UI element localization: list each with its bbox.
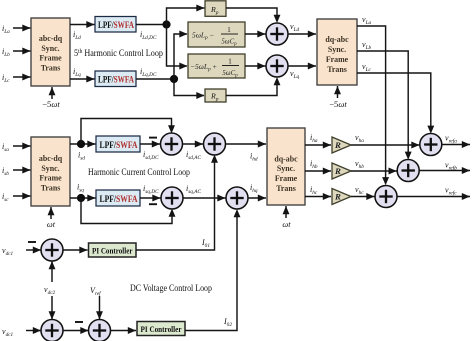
wire v_Lc to refa junction bbox=[357, 73, 434, 134]
svg-text:vLq: vLq bbox=[290, 69, 300, 80]
svg-text:5th Harmonic Control Loop: 5th Harmonic Control Loop bbox=[74, 48, 163, 58]
minus sign at junction1 input bbox=[149, 137, 157, 139]
svg-text:isq: isq bbox=[77, 183, 84, 194]
svg-text:I01: I01 bbox=[201, 238, 210, 249]
svg-text:dq-abc: dq-abc bbox=[325, 35, 349, 44]
svg-text:−5ωt: −5ωt bbox=[42, 99, 60, 109]
svg-text:Trans: Trans bbox=[327, 65, 347, 74]
svg-text:iLc: iLc bbox=[2, 73, 10, 84]
svg-text:Trans: Trans bbox=[41, 64, 61, 73]
label v_refa bbox=[445, 134, 457, 145]
svg-text:LPF/SWFA: LPF/SWFA bbox=[98, 76, 134, 86]
svg-text:isd,AC: isd,AC bbox=[186, 150, 202, 161]
label wt bbox=[47, 220, 56, 229]
svg-text:isd: isd bbox=[78, 151, 85, 162]
wire i_hc to gain R c bbox=[305, 193, 331, 200]
svg-text:iLb: iLb bbox=[2, 47, 10, 58]
svg-text:LPF/SWFA: LPF/SWFA bbox=[100, 195, 138, 205]
wire J2 to dq-abc mid bbox=[225, 141, 266, 148]
svg-text:Sync.: Sync. bbox=[277, 164, 295, 173]
wire i_sd to LPF3 bbox=[70, 141, 96, 148]
label 5th Harmonic Control Loop bbox=[74, 48, 163, 58]
wire J8 to J9 bbox=[63, 327, 89, 334]
summing junction i_sq,AC (J3) bbox=[161, 187, 183, 209]
svg-text:1: 1 bbox=[227, 25, 231, 34]
label v_Lq bbox=[290, 69, 300, 80]
wire i_sa input arrow bbox=[13, 143, 31, 150]
svg-text:iLd,DC: iLd,DC bbox=[140, 30, 157, 41]
wire i_Lc input arrow bbox=[13, 74, 31, 81]
svg-text:isq,DC: isq,DC bbox=[143, 184, 159, 195]
svg-text:ωt: ωt bbox=[47, 220, 56, 229]
wire I01 from PI1 up into J2 bbox=[136, 155, 218, 251]
svg-text:iLq: iLq bbox=[73, 67, 81, 78]
minus sign at J9 input bbox=[75, 321, 83, 323]
svg-text:abc-dq: abc-dq bbox=[39, 154, 63, 163]
svg-text:iLa: iLa bbox=[2, 24, 10, 35]
node dot i_sd bbox=[77, 140, 85, 148]
svg-text:vLb: vLb bbox=[362, 40, 372, 51]
svg-text:Frame: Frame bbox=[326, 55, 349, 64]
svg-text:isc: isc bbox=[2, 192, 9, 203]
wire i_La input arrow bbox=[13, 25, 31, 32]
wire v_dc1 to junction J8 bbox=[26, 327, 41, 334]
wire v_La to refc junction bbox=[357, 26, 389, 185]
wire junction vLq to dq-abc bbox=[288, 63, 317, 70]
wire junction vLd to dq-abc bbox=[288, 31, 317, 38]
block PI Controller 2 bbox=[137, 322, 185, 336]
label i_hq bbox=[250, 183, 258, 194]
block dq-abc Sync Frame Trans (5th harmonic) bbox=[317, 19, 357, 85]
input label i_sb bbox=[2, 166, 9, 177]
svg-text:iha: iha bbox=[310, 133, 318, 144]
wire i_hb to gain R b bbox=[305, 168, 331, 175]
node dot i_Ld,DC bbox=[162, 20, 170, 28]
gain triangle R b bbox=[332, 163, 351, 179]
svg-text:Sync.: Sync. bbox=[41, 164, 59, 173]
wire i_Lb input arrow bbox=[13, 48, 31, 55]
label -5wt (dq-abc) bbox=[329, 99, 347, 109]
svg-text:vrefb: vrefb bbox=[445, 161, 457, 172]
label Harmonic Current Control Loop bbox=[88, 167, 190, 177]
label v_Lc bbox=[362, 62, 372, 73]
block LPF/SWFA 4 bbox=[96, 190, 140, 206]
summing junction v_refb bbox=[397, 160, 419, 182]
wire J4 to dq-abc mid bbox=[248, 195, 266, 202]
node dot i_Lq,DC bbox=[170, 75, 178, 83]
wire LPF3 to junction1 bbox=[140, 141, 160, 148]
wire i_sq to LPF4 bbox=[70, 195, 96, 202]
svg-text:vdc2: vdc2 bbox=[44, 285, 56, 296]
svg-text:ωt: ωt bbox=[282, 220, 291, 229]
input label v_dc1 (top) bbox=[2, 246, 14, 257]
svg-text:vdc1: vdc1 bbox=[2, 327, 14, 338]
summing junction J8 bbox=[41, 320, 63, 341]
label I_02 bbox=[223, 317, 232, 328]
label i_sq,AC bbox=[186, 184, 202, 195]
svg-text:ihq: ihq bbox=[250, 183, 258, 194]
svg-text:isq,AC: isq,AC bbox=[186, 184, 202, 195]
svg-text:vLa: vLa bbox=[362, 15, 372, 26]
input arrow wt into abc-dq bbox=[48, 207, 55, 219]
input label i_Lb bbox=[2, 47, 10, 58]
gain triangle R a bbox=[332, 137, 351, 153]
input label v_dc1 (bottom) bbox=[2, 327, 14, 338]
summing junction J2 (adds I01) bbox=[204, 133, 226, 155]
wire v_refc output bbox=[397, 193, 471, 200]
svg-text:Trans: Trans bbox=[276, 184, 296, 193]
wire J9 to PI controller 2 bbox=[110, 327, 136, 334]
summing junction i_sd,AC (J1) bbox=[161, 133, 183, 155]
svg-text:I02: I02 bbox=[223, 317, 232, 328]
svg-text:iLq,DC: iLq,DC bbox=[140, 67, 157, 78]
svg-text:vhc: vhc bbox=[355, 185, 364, 196]
wire J5 to PI controller 1 bbox=[63, 247, 88, 254]
label i_Ld,DC bbox=[140, 30, 157, 41]
label i_Lq bbox=[73, 67, 81, 78]
input label i_sa bbox=[2, 142, 9, 153]
wire i_sb input arrow bbox=[13, 167, 31, 174]
wire I02 from PI2 up into J4 bbox=[185, 209, 240, 331]
svg-text:isa: isa bbox=[2, 142, 9, 153]
input arrow -5wt into abc-dq block bbox=[49, 87, 56, 99]
wire gain1 to junction vLd bbox=[245, 31, 266, 38]
label i_Ld bbox=[73, 30, 81, 41]
wire feedforward i_sq under LPF4 into junction3 bottom bbox=[81, 198, 175, 224]
wire i_sc input arrow bbox=[13, 193, 31, 200]
wire V_ref down into J9 bbox=[96, 296, 103, 320]
block Rp bottom bbox=[205, 89, 226, 102]
svg-text:Vref: Vref bbox=[90, 286, 102, 297]
svg-text:vdc1: vdc1 bbox=[2, 246, 14, 257]
svg-text:vhb: vhb bbox=[355, 159, 364, 170]
summing junction J9 bbox=[89, 320, 111, 341]
gain triangle R c bbox=[332, 189, 351, 205]
svg-text:1: 1 bbox=[228, 57, 232, 66]
label v_hb bbox=[355, 159, 364, 170]
wire v_refa output bbox=[441, 141, 470, 148]
label I_01 bbox=[201, 238, 210, 249]
summing junction J4 (adds I02) bbox=[226, 187, 248, 209]
wire gain2 to junction vLq bbox=[245, 63, 266, 70]
svg-text:DC Voltage Control Loop: DC Voltage Control Loop bbox=[130, 283, 212, 293]
label v_Ld bbox=[290, 22, 300, 33]
summing junction v_refc bbox=[375, 186, 397, 208]
label v_hc bbox=[355, 185, 364, 196]
minus sign at junction3 input bbox=[149, 203, 157, 205]
svg-text:R: R bbox=[334, 192, 341, 202]
label v_dc2 bbox=[44, 285, 56, 296]
svg-text:Sync.: Sync. bbox=[41, 44, 59, 53]
svg-text:abc-dq: abc-dq bbox=[39, 34, 63, 43]
wire v_refb output bbox=[419, 167, 470, 174]
svg-text:LPF/SWFA: LPF/SWFA bbox=[98, 21, 134, 31]
svg-text:PI Controller: PI Controller bbox=[141, 325, 182, 334]
wire v_dc2 down into J8 bbox=[49, 296, 56, 320]
wire LPF4 to junction3 bbox=[140, 195, 161, 202]
label i_sd,AC bbox=[186, 150, 202, 161]
summing junction J5 bbox=[41, 239, 63, 261]
wire v_dc1 to junction J5 bbox=[26, 247, 41, 254]
block LPF/SWFA 2 bbox=[95, 71, 136, 87]
svg-text:vrefa: vrefa bbox=[445, 134, 457, 145]
wire v_ha to refa junction bbox=[351, 142, 420, 149]
summing junction vLd bbox=[266, 23, 288, 45]
wire node i_Lq,DC down to Rp2 bbox=[174, 79, 205, 99]
block LPF/SWFA 3 bbox=[96, 136, 140, 152]
wire node i_Ld,DC down to gain2 bbox=[167, 25, 188, 70]
block PI Controller 1 bbox=[89, 243, 137, 257]
label DC Voltage Control Loop bbox=[130, 283, 212, 293]
wire v_hb to refb junction bbox=[351, 168, 397, 175]
svg-text:Frame: Frame bbox=[39, 174, 62, 183]
wire v_dc2 up into J5 bbox=[49, 261, 56, 282]
label i_hc bbox=[310, 185, 318, 196]
wire i_Lq,DC from LPF2 to node bbox=[136, 78, 174, 80]
svg-text:R: R bbox=[334, 140, 341, 150]
label v_ha bbox=[355, 133, 364, 144]
input arrow wt into dq-abc mid bbox=[283, 206, 290, 218]
svg-text:vrefc: vrefc bbox=[445, 186, 457, 197]
wire v_hc to refc junction bbox=[351, 193, 375, 200]
svg-text:dq-abc: dq-abc bbox=[274, 154, 298, 163]
svg-text:ihd: ihd bbox=[250, 152, 258, 163]
svg-text:vLd: vLd bbox=[290, 22, 300, 33]
input label i_La bbox=[2, 24, 10, 35]
block gain 5wLp - 1/5wCp bbox=[188, 22, 245, 47]
svg-text:Trans: Trans bbox=[41, 184, 61, 193]
wire node i_Lq,DC up to gain1 bbox=[174, 31, 188, 79]
input label i_Lc bbox=[2, 73, 10, 84]
svg-text:isd,DC: isd,DC bbox=[143, 150, 159, 161]
label v_La bbox=[362, 15, 372, 26]
wire Rp2 output to junction vLq (up) bbox=[226, 77, 280, 96]
svg-text:LPF/SWFA: LPF/SWFA bbox=[100, 141, 138, 151]
label i_sd,DC bbox=[143, 150, 159, 161]
input arrow -5wt into dq-abc block bbox=[334, 86, 341, 98]
block abc-dq Sync Frame Trans (5th harmonic) bbox=[31, 18, 70, 86]
wire feedforward i_sd over LPF3 into junction1 top bbox=[81, 119, 175, 145]
wire J1 to J2 bbox=[182, 141, 203, 148]
svg-text:Frame: Frame bbox=[39, 54, 62, 63]
svg-text:Sync.: Sync. bbox=[328, 45, 346, 54]
label -5wt bbox=[42, 99, 60, 109]
label i_ha bbox=[310, 133, 318, 144]
svg-text:vLc: vLc bbox=[362, 62, 372, 73]
svg-text:isb: isb bbox=[2, 166, 9, 177]
block gain -5wLp + 1/5wCp bbox=[188, 54, 245, 78]
wire v_Lb to refb junction bbox=[357, 51, 412, 160]
wire J3 to J4 bbox=[183, 195, 226, 202]
minus sign on v_dc1 input bbox=[28, 241, 36, 243]
svg-text:ihb: ihb bbox=[310, 159, 318, 170]
block abc-dq Sync Frame Trans (fundamental) bbox=[31, 137, 70, 206]
wire node to Rp1 bbox=[167, 5, 205, 25]
svg-text:ihc: ihc bbox=[310, 185, 318, 196]
wire Rp1 output to junction vLd (down) bbox=[226, 8, 280, 23]
label i_sd bbox=[78, 151, 85, 162]
block Rp top bbox=[205, 1, 226, 16]
label i_Lq,DC bbox=[140, 67, 157, 78]
block LPF/SWFA 1 bbox=[95, 17, 136, 33]
wire i_ha to gain R a bbox=[305, 142, 331, 149]
summing junction v_refa bbox=[420, 134, 442, 156]
input label i_sc bbox=[2, 192, 9, 203]
label i_sq,DC bbox=[143, 184, 159, 195]
label i_hd bbox=[250, 152, 258, 163]
label v_Lb bbox=[362, 40, 372, 51]
label v_refb bbox=[445, 161, 457, 172]
label i_hb bbox=[310, 159, 318, 170]
label i_sq bbox=[77, 183, 84, 194]
svg-text:−5ωt: −5ωt bbox=[329, 99, 347, 109]
label v_refc bbox=[445, 186, 457, 197]
svg-text:vha: vha bbox=[355, 133, 364, 144]
svg-text:Harmonic Current Control Loop: Harmonic Current Control Loop bbox=[88, 167, 190, 177]
label wt (dq-abc mid) bbox=[282, 220, 291, 229]
svg-text:iLd: iLd bbox=[73, 30, 81, 41]
wire i_Ld to LPF1 bbox=[70, 21, 95, 28]
node dot i_sq bbox=[77, 194, 85, 202]
summing junction vLq bbox=[266, 55, 288, 77]
block dq-abc Sync Frame Trans (mid) bbox=[267, 128, 305, 205]
svg-text:Frame: Frame bbox=[275, 174, 298, 183]
wire i_Lq to LPF2 bbox=[70, 76, 95, 83]
svg-text:PI Controller: PI Controller bbox=[92, 247, 133, 256]
svg-text:R: R bbox=[334, 166, 341, 176]
wire i_Ld,DC from LPF1 to node bbox=[136, 24, 167, 26]
label V_ref bbox=[90, 286, 102, 297]
